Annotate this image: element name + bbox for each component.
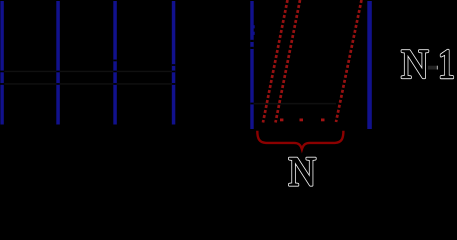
grid line 5: [250, 1, 253, 129]
dashed slanted line D1: [263, 0, 288, 123]
grid line 1: [0, 1, 3, 125]
hyphen of N-1: [428, 66, 438, 70]
notch crossings on grid lines: [0, 40, 254, 105]
grid line 6: [367, 1, 372, 129]
digit 1 of N-1: [441, 50, 453, 77]
dashed slanted line D2: [276, 0, 301, 123]
grid line 3: [113, 1, 117, 125]
faint horizontal line H3: [250, 103, 336, 105]
label N of N-1: [402, 51, 428, 78]
blue nubs on grid line 5: [253, 25, 255, 35]
grid line 2: [56, 1, 60, 125]
ellipsis dots: [280, 119, 325, 122]
label N (under brace): [289, 158, 315, 185]
faint horizontal line H1: [0, 70, 174, 72]
faint horizontal line H2: [0, 83, 174, 85]
dashed slanted line D3: [336, 0, 362, 122]
underbrace: [257, 131, 343, 149]
grid line 4: [172, 1, 176, 125]
